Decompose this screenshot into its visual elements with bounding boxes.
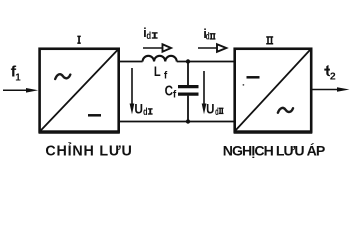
- svg-text:CHỈNH LƯU: CHỈNH LƯU: [45, 143, 132, 160]
- wire: U1 to inductor (top dc link): [119, 61, 143, 63]
- output t2 arrow: [312, 89, 339, 91]
- converter box U1 (rectifier): [40, 49, 119, 132]
- node: capacitor top junction: [186, 59, 190, 63]
- svg-text:2: 2: [330, 71, 336, 83]
- voltage arrow UdI: [131, 68, 133, 106]
- current arrow idII: [198, 47, 217, 49]
- AC symbol in U2: [278, 108, 293, 113]
- node: capacitor bottom junction: [186, 119, 190, 123]
- current arrow idI: [143, 47, 163, 49]
- svg-text:d: d: [206, 31, 210, 43]
- inductor Lf: [143, 56, 177, 62]
- svg-text:L: L: [154, 63, 161, 79]
- input f1 arrow: [3, 89, 28, 91]
- svg-text:C: C: [165, 84, 173, 100]
- capacitor Cf plates: [178, 85, 199, 88]
- svg-text:U: U: [206, 102, 214, 117]
- svg-text:d: d: [146, 30, 151, 42]
- capacitor Cf top lead: [187, 62, 189, 86]
- svg-text:d: d: [215, 107, 219, 118]
- print speck in U2: [243, 84, 245, 86]
- svg-text:U: U: [134, 102, 143, 117]
- svg-text:1: 1: [15, 72, 21, 83]
- label t2: [324, 65, 330, 76]
- label I above U1: [77, 36, 81, 44]
- wire: bottom dc link: [119, 121, 235, 123]
- voltage arrow UdII: [203, 71, 205, 106]
- label II above U2: [266, 36, 273, 44]
- diagonal of U1: [41, 50, 118, 131]
- AC symbol in U1: [55, 74, 70, 79]
- DC symbol in U1: [88, 114, 101, 117]
- wire: inductor to U2 (top dc link): [177, 61, 235, 63]
- converter box U2 (inverter): [235, 49, 312, 132]
- capacitor Cf bottom lead: [187, 96, 189, 122]
- diagonal of U2: [236, 50, 311, 131]
- svg-text:NGHỊCH LƯU ÁP: NGHỊCH LƯU ÁP: [223, 143, 326, 159]
- svg-text:d: d: [143, 107, 147, 118]
- DC symbol in U2: [247, 76, 260, 79]
